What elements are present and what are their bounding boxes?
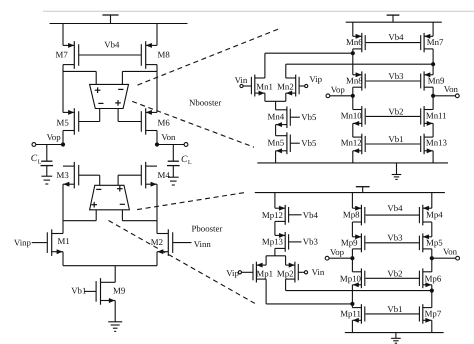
transistor Mn2 [286,75,299,97]
ground (Pbooster rail) [395,333,397,339]
label Vb5 (Mn5 gate) [290,138,317,148]
input terminal Vinp [14,237,48,247]
transistor Mn7 [421,33,433,52]
transistor Mn8 [353,71,365,90]
transistor M7 [63,41,79,69]
node Von tap (Nbooster right) [431,94,459,98]
svg-text:L: L [38,158,42,165]
svg-text:Mp12: Mp12 [262,210,283,220]
wire: Mn11 source to Mn13 drain [432,123,434,137]
wire: gate bus Mp9-Mp5 (Vb3) [366,242,420,244]
svg-text:Mn5: Mn5 [268,138,285,148]
wire: tail to Mn4 drain [275,101,277,110]
svg-text:Mp13: Mp13 [262,236,284,246]
svg-text:Vb4: Vb4 [388,32,404,42]
wire: M2 source to tail node [156,252,158,266]
wire: Mp9 drain to Mp10 drain [351,249,353,272]
svg-text:Vb3: Vb3 [387,232,403,242]
transistor Mp6 [419,268,431,288]
svg-text:Mn10: Mn10 [341,110,363,120]
transistor Mn9 [421,71,433,90]
wire: M8 drain to M6 source [156,65,158,113]
transistor M2 [157,229,173,256]
transistor Mp5 [419,233,431,252]
wire: bus node B to Mn2 drain [286,63,433,65]
svg-text:Mp8: Mp8 [343,210,360,220]
svg-text:Vb1: Vb1 [387,304,402,314]
faint horizontal rule artifact [43,10,474,12]
wire: ground rail (Pbooster) [345,332,444,334]
supply rail VDD (Pbooster) [356,187,370,193]
svg-text:Mp6: Mp6 [425,274,442,284]
wire: rail to Mp12 source [274,193,276,209]
wire: tail to M9 drain [114,266,116,283]
op-amp Nbooster symbol (trapezoid) [90,84,129,108]
wire: bus node A to Mn1 drain [265,52,353,54]
wire: bus D to Pbooster left trunk [266,303,352,305]
node D junction (Mp1 drain bus) [350,302,354,306]
svg-text:Vb5: Vb5 [301,138,317,148]
svg-text:M1: M1 [58,236,70,246]
svg-text:Mn2: Mn2 [277,82,294,92]
svg-text:L: L [188,159,192,166]
wire: ground rail (Nbooster) [257,162,448,164]
svg-text:Vb4: Vb4 [104,39,120,49]
transistor Mn10 [353,106,365,127]
wire: Mn6 drain to node A / Mn8 source [352,49,354,75]
transistor Mp7 [419,304,431,324]
wire: Mn2 drain up to bus B [285,64,287,78]
svg-text:Mp9: Mp9 [341,238,358,248]
ground (left CL) [41,175,52,177]
label Vb5 (Mn4 gate) [290,112,317,122]
wire: gate bus Mn6-Mn7 (Vb4) [366,42,421,44]
svg-text:Vb2: Vb2 [387,268,402,278]
svg-text:Mp10: Mp10 [340,274,362,284]
svg-text:Mn9: Mn9 [428,76,445,86]
svg-text:Vb5: Vb5 [301,112,317,122]
wire: Mp11 source to ground rail [351,320,353,332]
transistor Mn5 [276,132,291,154]
wire: rail to Mp8 source [351,193,353,209]
wire: tail Mn1-Mn2 [265,100,286,102]
svg-text:Pbooster: Pbooster [192,224,223,234]
svg-text:Vb4: Vb4 [387,203,403,213]
wire: VDD to M8 source [156,24,158,46]
transistor Mp12 [275,205,289,225]
transistor Mp9 [352,233,364,252]
svg-text:Mn11: Mn11 [426,110,447,120]
input terminal Vin (Nbooster) [235,75,252,88]
wire: M3 source to M1 drain [62,184,64,233]
ground (Nbooster rail) [396,163,398,175]
wire: Mn1 source to tail [264,93,266,101]
svg-text:Nbooster: Nbooster [189,98,221,108]
wire: rail to Mn6 source [352,22,354,36]
svg-text:Mp5: Mp5 [426,238,443,248]
svg-text:Vb1: Vb1 [71,286,86,296]
transistor M3 [63,162,79,189]
wire: tail to Mp2 source [285,256,287,265]
input terminal Vip (Pbooster) [226,268,253,278]
input terminal Vin (Pbooster) [298,267,325,277]
wire: Nbooster output to M6 gate [117,109,119,122]
svg-text:Mn8: Mn8 [346,76,363,86]
wire: Mn4 source to Mn5 drain [275,125,277,136]
svg-text:Vb3: Vb3 [303,236,319,246]
wire: Mn1 drain up to bus A [264,53,266,78]
wire: rail to Mn7 source [432,22,434,36]
transistor Mp11 [352,304,364,324]
node Vop tap (Nbooster left) [326,94,355,98]
svg-text:Mp1: Mp1 [256,269,273,279]
svg-text:Vin: Vin [312,267,325,277]
dashed link: Pbooster symbol to Pbooster schematic (upper) [137,192,247,209]
transistor Mp4 [419,205,431,226]
wire: Pbooster input from M1 drain [95,210,97,221]
svg-text:Vop: Vop [47,132,62,142]
wire: top rail (left amp) [50,23,188,25]
wire: rail to Mp4 source [431,193,433,209]
transistor M6 [141,108,157,135]
input terminal Vip (Nbooster) [299,74,322,88]
wire: Mn5 source to ground rail [275,151,277,163]
capacitor CL (left) [41,145,54,177]
wire: Mn2 source to tail [285,93,287,101]
wire: Mp12 drain to Mp13 source [274,221,276,235]
wire: top rail (Pbooster) [255,192,445,194]
transistor Mn12 [353,134,365,155]
node Vop tap (Pbooster left) [325,256,354,260]
label Vb4 (Mp12 gate) [289,210,319,220]
wire: M3 gate to Pbooster output [79,174,100,176]
node Von tap (Pbooster right) [430,256,460,260]
svg-text:Von: Von [161,132,176,142]
node Vop (first-stage output left) [32,142,65,146]
transistor Mn13 [421,134,433,155]
wire: gate bus Mp11-Mp7 (Vb1) [366,313,420,315]
svg-text:Mp7: Mp7 [425,308,442,318]
label Vb3 (Mp13 gate) [289,236,319,246]
wire: Mp10 source to Mp11 drain [351,285,353,308]
wire: M8 drain tap to Nbooster input- [122,70,157,72]
wire: bus E to Pbooster right trunk [286,290,432,292]
wire: Mn8 drain to Mn10 drain [352,87,354,109]
wire: Mp2 drain down to bus E [285,279,287,291]
svg-text:Vop: Vop [331,85,346,95]
svg-text:M6: M6 [158,117,171,127]
wire: M5 drain to Vop node [62,131,64,145]
svg-text:Mn12: Mn12 [341,138,362,148]
node E junction (Mp2 drain bus) [430,289,434,293]
wire: tail to Mp1 source [265,256,267,265]
transistor Mn1 [251,75,265,97]
wire: Mp5 drain to Mp6 drain [431,249,433,272]
transistor M1 [47,229,63,256]
wire: VDD to M7 source [62,24,64,46]
dashed link: Nbooster symbol to Nbooster schematic (upper) [138,28,282,85]
wire: Mp13 drain to Mp1/Mp2 tail [274,248,276,255]
wire: gate bus Mn10-Mn11 (Vb2) [366,115,421,117]
wire: Mp8 drain to Mp9 source [351,222,353,237]
transistor Mn6 [353,33,365,52]
wire: gate bus Mn12-Mn13 (Vb1) [366,143,421,145]
wire: gate bus M7-M8 (Vb4) [79,54,142,56]
svg-text:M4: M4 [158,170,171,180]
wire: Mn12 source to ground rail [352,151,354,163]
wire: gate bus Mn8-Mn9 (Vb3) [366,80,421,82]
wire: M4 gate to Pbooster output [118,174,141,176]
svg-text:Mp4: Mp4 [426,210,443,220]
wire: Mn9 drain to Mn11 drain [432,87,434,109]
svg-text:Vb4: Vb4 [303,210,319,220]
transistor Mn11 [421,106,433,127]
wire: top rail (Nbooster) [346,21,442,23]
svg-text:M7: M7 [56,50,69,60]
wire: M7 drain to M5 source [62,65,64,113]
wire: M9 source to ground [114,301,116,322]
wire: Mp7 source to ground rail [431,320,433,332]
wire: M6 drain to Von node [156,131,158,145]
svg-text:Mn1: Mn1 [256,82,273,92]
node B junction (Mn7 drain, Mn2 drain bus) [431,62,435,66]
input terminal Vinn [173,239,212,249]
svg-text:M3: M3 [57,170,70,180]
wire: tail rail M1-M2 [63,265,157,267]
transistor Mp13 [275,232,289,252]
node A junction (Mn6 drain, Mn1 drain bus) [351,51,355,55]
svg-text:Von: Von [443,246,458,256]
svg-text:Vip: Vip [309,74,322,84]
svg-text:Mn7: Mn7 [427,37,444,47]
capacitor CL (right) [167,145,180,178]
svg-text:Von: Von [444,84,459,94]
wire: Mn10 source to Mn12 drain [352,123,354,137]
node Von (first-stage output right) [155,142,188,146]
svg-text:Vinp: Vinp [14,237,32,247]
svg-text:Vip: Vip [226,268,239,278]
supply rail VDD (left amp) [102,15,118,24]
wire: tail Mp1-Mp2 (Pbooster pair) [266,255,286,257]
transistor Mp8 [352,205,364,226]
transistor M8 [141,41,157,69]
transistor M4 [141,162,157,189]
wire: Mp1 drain down to bus D [265,279,267,304]
wire: gate bus Mp10-Mp6 (Vb2) [366,277,420,279]
transistor Mp10 [352,268,364,288]
svg-text:M8: M8 [158,50,171,60]
svg-text:Vb2: Vb2 [388,106,403,116]
wire: M7 drain tap to Nbooster input+ [63,70,96,72]
wire: Mn7 drain to node B / Mn9 source [432,49,434,75]
svg-text:M5: M5 [57,117,70,127]
dashed link: Nbooster symbol to Nbooster schematic (lower) [132,101,254,147]
supply rail VDD (Nbooster) [387,15,400,22]
wire: Mn13 source to ground rail [432,151,434,163]
transistor Mp1 [253,262,266,283]
svg-text:Mp2: Mp2 [277,269,294,279]
op-amp Pbooster symbol (trapezoid) [90,185,130,210]
svg-text:M2: M2 [151,237,163,247]
transistor M5 [63,108,79,135]
ground (right CL) [168,176,179,178]
svg-text:Mn4: Mn4 [268,112,285,122]
svg-text:Vb1: Vb1 [388,134,403,144]
svg-text:Vop: Vop [330,247,345,257]
ground (M9 source) [108,321,122,323]
wire: M1 source to tail node [62,252,64,266]
svg-text:Vinn: Vinn [194,239,212,249]
wire: Nbooster output to M5 gate [99,109,101,122]
svg-text:M9: M9 [113,286,126,296]
svg-text:Vb3: Vb3 [388,71,404,81]
wire: gate bus Mp8-Mp4 (Vb4) [366,214,420,216]
transistor Mn4 [276,106,291,128]
svg-text:Vin: Vin [235,75,248,85]
transistor M9 [96,278,115,305]
svg-text:Mp11: Mp11 [340,308,361,318]
wire: Mp6 source to Mp7 drain [431,285,433,308]
svg-text:Mn13: Mn13 [426,138,448,148]
wire: Pbooster input from M2 drain [121,210,123,221]
dashed link: Pbooster symbol to Pbooster schematic (lower) [109,221,255,304]
svg-text:Mn6: Mn6 [346,37,363,47]
wire: M4 source to M2 drain [156,184,158,233]
wire: Mp4 drain to Mp5 source [431,222,433,237]
label Vb1 (M9 gate) [71,286,96,296]
transistor Mp2 [286,262,299,283]
